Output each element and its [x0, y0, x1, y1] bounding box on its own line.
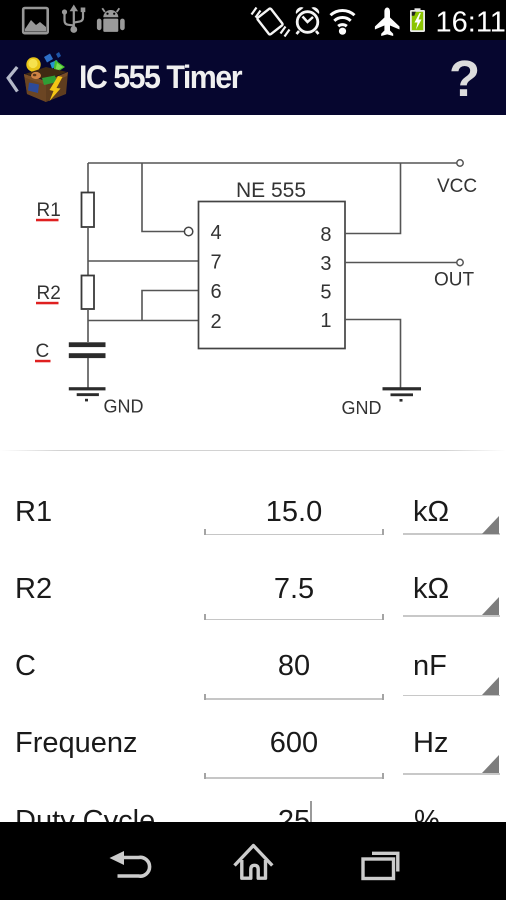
resistor R1: [82, 193, 95, 228]
screenshot/picture icon: [23, 8, 48, 33]
wifi icon: [331, 10, 355, 26]
wire: VCC top rail: [88, 162, 457, 164]
title: [79, 61, 241, 93]
action bar: [0, 40, 506, 115]
vibrate icon: [252, 8, 290, 37]
svg-text:8: 8: [320, 224, 331, 246]
resistor R2: [82, 276, 95, 310]
nav bar: [0, 822, 506, 900]
wire: pin 3 to OUT: [345, 262, 457, 264]
back chevron: [0, 40, 30, 115]
wire: pin 7: [88, 260, 199, 262]
wire: pin 6 branch: [142, 291, 199, 321]
home button: [235, 846, 273, 879]
svg-text:1: 1: [320, 310, 331, 332]
wire: C to ground: [87, 358, 89, 388]
wire: top rail to pin 4: [142, 163, 184, 232]
svg-text:R1: R1: [37, 200, 61, 221]
svg-text:GND: GND: [104, 397, 144, 417]
svg-text:3: 3: [320, 253, 331, 275]
node OUT terminal: [457, 259, 463, 265]
wire: R2 to C: [87, 309, 89, 342]
row R2: [15, 575, 52, 604]
svg-text:R2: R2: [37, 283, 61, 304]
svg-text:4: 4: [211, 222, 222, 244]
blue tools: [44, 54, 53, 63]
back button: [118, 857, 150, 876]
donut meter: [31, 72, 41, 79]
blue rect front: [28, 83, 39, 94]
pin 4 inverter bubble: [184, 227, 192, 235]
svg-text:16:11: 16:11: [436, 7, 506, 39]
airplane icon: [375, 8, 400, 37]
status bar icons: [0, 0, 506, 40]
svg-text:GND: GND: [342, 398, 382, 418]
help button: [449, 53, 480, 104]
svg-text:NE 555: NE 555: [236, 179, 306, 202]
wire: pin 2: [88, 320, 199, 322]
node VCC terminal: [457, 160, 463, 166]
op IC U1 NE555 body: [199, 202, 346, 349]
wire: pin 8 to VCC rail: [345, 163, 401, 234]
svg-text:5: 5: [320, 282, 331, 304]
svg-text:6: 6: [211, 281, 222, 303]
green LED triangle: [53, 60, 65, 75]
usb icon: [65, 9, 84, 29]
ground right: [383, 387, 422, 401]
wire: pin 1 to ground: [345, 320, 401, 388]
svg-text:VCC: VCC: [437, 176, 477, 197]
svg-text:OUT: OUT: [434, 270, 475, 291]
divider: [0, 450, 506, 451]
bulb: [26, 57, 40, 71]
app icon (toolbox): [0, 40, 100, 115]
svg-text:C: C: [36, 341, 50, 362]
battery icon: [415, 8, 421, 11]
lightning bolt: [50, 76, 63, 101]
box body: [24, 72, 68, 102]
alarm clock icon: [297, 12, 319, 34]
row R1: [15, 498, 52, 527]
status bar: [0, 0, 506, 40]
box opening: [25, 67, 67, 80]
svg-text:7: 7: [211, 252, 222, 274]
row Duty Cycle (clipped): [15, 807, 155, 836]
wire: top rail to R1: [87, 163, 89, 193]
capacitor C: [69, 342, 106, 358]
row Frequenz: [15, 729, 138, 758]
recents button: [363, 853, 398, 878]
row C: [15, 652, 36, 681]
svg-text:2: 2: [211, 311, 222, 333]
wire: R1 to R2: [87, 227, 89, 276]
green rect: [42, 76, 57, 86]
android robot icon: [97, 8, 125, 32]
ground left: [69, 387, 106, 401]
